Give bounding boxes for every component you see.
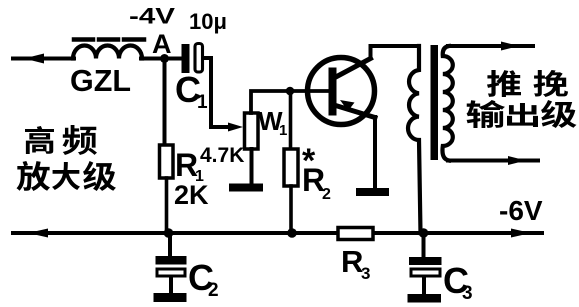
wire: W1 bottom to ground [250, 149, 254, 184]
label 高频 (HF amplifier stage, line 1) [25, 125, 97, 155]
svg-text:1: 1 [279, 122, 287, 139]
resistor R3 [338, 228, 373, 240]
svg-text:-4V: -4V [129, 4, 175, 29]
wire: C1 to W1 wiper [203, 58, 243, 132]
junction: transformer/C3 node [419, 228, 429, 238]
label 输出级 (output stage, line 2) [467, 100, 577, 128]
svg-text:10μ: 10μ [189, 9, 227, 34]
wire: R2 to bottom rail [289, 186, 293, 233]
svg-text:3: 3 [462, 283, 473, 304]
svg-text:GZL: GZL [70, 63, 131, 98]
inductor GZL [73, 40, 144, 59]
transformer T primary winding [408, 46, 420, 233]
wire: emitter to ground [373, 117, 377, 188]
junction: R1/C2 node [164, 228, 174, 238]
svg-text:2: 2 [208, 280, 219, 301]
wire: W1 top to transistor base [251, 91, 329, 113]
ground below W1 [229, 184, 263, 192]
label C1 [175, 69, 208, 113]
svg-text:3: 3 [361, 264, 370, 283]
svg-text:-6V: -6V [499, 195, 543, 226]
wire: input lead (top left) [13, 54, 74, 64]
capacitor C3 (electrolytic, to ground) [408, 233, 442, 303]
resistor R2 [284, 149, 298, 186]
transformer T secondary winding [442, 46, 452, 161]
junction: R2 node [287, 228, 297, 238]
svg-text:1: 1 [197, 92, 208, 113]
resistor R1 [160, 145, 174, 178]
svg-text:2: 2 [322, 186, 331, 203]
label 推挽 (push-pull, line 1) [487, 70, 568, 97]
wire: secondary top output [448, 42, 533, 51]
wire: secondary bottom output [448, 156, 538, 165]
capacitor C1 (electrolytic) [182, 44, 203, 74]
label C3 [443, 260, 473, 304]
wire: collector to transformer primary [371, 46, 420, 58]
wire: inductor to node A [141, 57, 183, 61]
label C2 [188, 257, 219, 301]
junction: base node [286, 87, 295, 96]
label 放大级 (HF amplifier stage, line 2) [16, 161, 115, 191]
wire: bottom supply rail [13, 229, 542, 238]
transistor Q1 (PNP) [308, 58, 376, 125]
label W1 [258, 106, 287, 139]
capacitor C2 (electrolytic, to ground) [154, 233, 187, 302]
wire: base node to R2 [289, 91, 293, 149]
svg-text:4.7K: 4.7K [200, 144, 244, 167]
node A [160, 54, 169, 63]
wire: node A to R1 [163, 59, 167, 146]
svg-text:A: A [152, 29, 172, 59]
svg-text:2K: 2K [174, 180, 209, 210]
label R1 [175, 147, 204, 185]
label R2 [302, 162, 331, 203]
wire: R1 to bottom rail [165, 178, 169, 233]
ground at emitter [356, 188, 389, 196]
transformer core [431, 45, 439, 160]
potentiometer W1 [245, 113, 259, 149]
label R3 [341, 244, 370, 283]
